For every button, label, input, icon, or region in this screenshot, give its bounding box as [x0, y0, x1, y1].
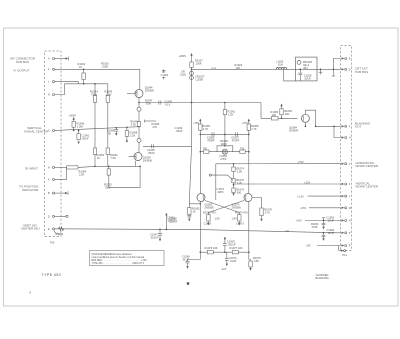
wire bus corner down to Q1084 base [261, 103, 297, 119]
svg-text:+1.2V: +1.2V [297, 194, 304, 198]
svg-text:F: F [349, 125, 351, 128]
resistor R1061 on x=224.9 from main bus [223, 102, 236, 146]
wire C1050 coupling from Q1054 region [143, 144, 192, 155]
svg-text:C1073: C1073 [236, 221, 244, 225]
svg-text:.001UF: .001UF [167, 218, 176, 222]
diode CR1026 [180, 69, 193, 76]
resistor R1077 on rail [230, 246, 243, 254]
svg-text:2.2K: 2.2K [130, 133, 136, 137]
resistor R1079 right with ground [249, 256, 261, 271]
svg-text:10K: 10K [285, 112, 290, 116]
wire w2 out to pin y=184 [233, 180, 341, 185]
svg-text:1.8V: 1.8V [215, 216, 221, 220]
svg-text:1.5K: 1.5K [228, 112, 234, 116]
wire Q1063 emitter down [200, 202, 202, 260]
resistor R1090 squiggle on E bus [59, 227, 64, 231]
transistor Q1054 [129, 142, 153, 162]
svg-text:TYPE 453: TYPE 453 [42, 273, 62, 277]
svg-text:P10: P10 [50, 242, 55, 245]
svg-text:-12V: -12V [221, 267, 227, 271]
connector P10 (left, dashed) [45, 51, 62, 245]
svg-text:+75V: +75V [298, 160, 304, 164]
svg-text:.02UF: .02UF [327, 219, 334, 223]
transistor Q1044 [127, 69, 154, 97]
wire emitter rail y=252.2 [200, 251, 249, 253]
svg-text:.05UF: .05UF [176, 129, 183, 133]
wire cross-coupling X left-to-right [205, 201, 239, 213]
wire pin B1 stub down to F bus [332, 59, 341, 77]
svg-text:2.7K: 2.7K [251, 127, 257, 131]
svg-text:D: D [349, 68, 351, 71]
diode CR1027 [190, 75, 205, 82]
pin E of P10 [48, 228, 59, 235]
svg-text:2N3906: 2N3906 [143, 159, 153, 163]
pin K of P10 jog up to H wire [48, 167, 67, 181]
svg-text:10K: 10K [236, 66, 241, 70]
resistor R1051 lower box on x=95 [93, 148, 104, 160]
wire cross-coupling X right-to-left [208, 201, 244, 213]
svg-text:+300V: +300V [179, 54, 187, 58]
resistor R1042 stub between F bus and L/N bus [78, 62, 86, 85]
svg-text:.01UF: .01UF [182, 257, 189, 261]
svg-text:L: L [48, 81, 50, 84]
svg-text:TYPE 453 . . . . . . . . . .: TYPE 453 . . . . . . . . . . . . . . . .… [92, 262, 145, 265]
svg-text:N: N [48, 94, 50, 97]
svg-text:1K: 1K [79, 65, 82, 69]
wire divider column x=233.5 [233, 163, 235, 193]
svg-text:M: M [349, 207, 351, 210]
resistor R1078 right outer [260, 203, 273, 221]
wire bypass loop under L1025 [284, 69, 296, 81]
capacitor C1046 stub below C bus with ground [107, 127, 119, 136]
svg-text:PCB BUS: PCB BUS [16, 60, 29, 64]
svg-text:PCB BUS: PCB BUS [355, 70, 368, 74]
pin P1 of P11 [342, 232, 351, 235]
wire loop above C1066 [217, 145, 233, 152]
svg-text:.001UF: .001UF [150, 236, 159, 240]
svg-text:L: L [349, 195, 351, 198]
diode CR1044 circle [137, 138, 141, 142]
pin H of P10 with resistor R1054 to divider [48, 166, 96, 177]
svg-text:H: H [48, 167, 50, 170]
pin L1 of P11 [342, 195, 351, 198]
svg-text:9.1V: 9.1V [165, 103, 171, 107]
svg-text:A: A [48, 58, 50, 61]
power +300V feed at x=191.5 [179, 53, 204, 69]
svg-text:100K: 100K [196, 61, 202, 65]
note box [90, 251, 165, 266]
pin R1 of P11 [342, 244, 351, 247]
capacitor C1065 on wire [207, 132, 216, 142]
svg-text:INDICATOR: INDICATOR [22, 188, 39, 192]
capacitor C1026 inside box [298, 69, 312, 81]
svg-text:J: J [349, 163, 351, 166]
node junction circle with stub [209, 174, 233, 194]
capacitor C1066 circled on mid rail [219, 149, 227, 161]
pin J1 of P11 [342, 163, 351, 166]
wire cross coupling top y=134.4 [200, 134, 250, 136]
power arrow left supply [193, 119, 211, 194]
capacitor C1092 to ground below E bus [322, 228, 335, 241]
pin N1 of P11 [342, 219, 351, 222]
wire w3 Q1073 output to pin [297, 194, 341, 198]
svg-text:2.7K: 2.7K [265, 210, 271, 214]
capacitor C1067 on wire [231, 132, 240, 142]
svg-text:C1024: C1024 [161, 73, 169, 77]
svg-text:N: N [349, 220, 351, 223]
svg-text:.05UF: .05UF [82, 137, 89, 141]
svg-text:10K: 10K [272, 113, 277, 117]
wire diode to R1043 [138, 111, 140, 121]
svg-text:470PF: 470PF [232, 138, 240, 142]
pin N of P10 [48, 94, 55, 97]
svg-text:750K: 750K [105, 185, 111, 189]
capacitor C1068 left with ground [182, 254, 200, 268]
svg-text:750K: 750K [91, 92, 97, 96]
svg-text:.001UF: .001UF [227, 242, 236, 246]
resistor small box left on mid rail [203, 147, 209, 154]
svg-text:-0.6V: -0.6V [300, 206, 306, 210]
svg-text:560: 560 [237, 191, 242, 195]
svg-text:1.8K: 1.8K [254, 259, 260, 263]
wire R1043 to CR1044 [138, 127, 140, 139]
pin A of P10 [48, 57, 69, 61]
wire N pin jog [55, 84, 65, 95]
svg-text:L2508: L2508 [196, 78, 204, 82]
svg-text:7.5K: 7.5K [111, 156, 117, 160]
resistor R1076 on rail [205, 246, 218, 254]
wire C bus from pin C to Q1054 chain [55, 127, 139, 131]
pin D of P10 open stub [48, 215, 68, 218]
svg-text:WORK CENTER: WORK CENTER [356, 185, 379, 189]
svg-text:2N3904: 2N3904 [289, 128, 299, 132]
node junction at x=320.5 on F bus [319, 69, 323, 75]
node junction F bus / +300V [191, 69, 193, 71]
resistor R1062 on emitter feed [167, 146, 201, 222]
pin F of P10 [48, 68, 55, 71]
svg-text:CENTER ADJ: CENTER ADJ [21, 227, 40, 231]
resistor R1048 below C bus with ground [125, 120, 138, 143]
svg-text:+12V: +12V [304, 180, 310, 184]
svg-text:750K: 750K [145, 102, 151, 106]
svg-text:P: P [349, 232, 351, 235]
svg-text:27PF: 27PF [220, 157, 227, 161]
svg-text:2.2K: 2.2K [237, 181, 243, 185]
svg-text:B: B [48, 192, 50, 195]
svg-text:2N3906: 2N3906 [205, 206, 215, 210]
wire L pin jog [55, 82, 79, 84]
pin L of P10 [48, 81, 55, 84]
wire Q1084 collector loop to pins [305, 110, 341, 137]
capacitor C1070 center with ground [221, 252, 237, 271]
svg-text:22PF: 22PF [218, 190, 225, 194]
power arrow right supply [242, 119, 259, 194]
inductor L1025 coil on F bus [276, 60, 287, 70]
svg-text:B: B [349, 58, 351, 61]
resistor box R1076S with ground [232, 188, 245, 196]
wire Q1054 emitter loop [95, 161, 141, 190]
power +300V feed to C bus [69, 114, 85, 132]
resistor R1082 on Q1084 base wire [271, 110, 279, 120]
wire w4 to pin [300, 206, 341, 210]
connector P11 (right, dashed) [341, 46, 352, 258]
power +12V feed R1083 [280, 104, 293, 120]
wire E bus y=229 [55, 229, 338, 233]
svg-text:1026: 1026 [180, 72, 186, 76]
svg-text:.02UF: .02UF [327, 231, 334, 235]
svg-text:OUT: OUT [355, 125, 362, 129]
svg-text:K: K [349, 183, 351, 186]
resistor R1041 below C bus with ground [77, 130, 90, 145]
resistor R1045 vertical with box [105, 84, 113, 167]
svg-text:SIGNAL CENTER: SIGNAL CENTER [24, 129, 49, 133]
pin C of P10 [48, 130, 55, 133]
svg-text:R: R [349, 245, 351, 248]
svg-text:+300V: +300V [69, 114, 77, 118]
wire Q1044 emitter down [138, 98, 140, 107]
svg-text:3.3K: 3.3K [131, 123, 137, 127]
svg-text:1.8M: 1.8M [77, 125, 83, 129]
wire horizontal out to pin (w1) y=163.8 [216, 160, 341, 164]
svg-text:.05UF: .05UF [148, 151, 155, 155]
svg-text:R1090: R1090 [56, 232, 64, 236]
svg-text:WORK CENTER: WORK CENTER [356, 164, 379, 168]
resistor box R1074 [232, 167, 245, 174]
svg-text:750: 750 [203, 147, 208, 151]
resistor small box right on mid rail [240, 147, 245, 154]
wire F bus y=69.3 [55, 68, 140, 70]
pin H1 of P11 [342, 136, 351, 139]
svg-text:470K: 470K [312, 225, 318, 229]
svg-text:1K: 1K [97, 156, 100, 160]
wire Q1073 emitter down [248, 202, 250, 260]
svg-text:1.5K: 1.5K [237, 170, 243, 174]
resistor box R1075 [232, 178, 245, 185]
wire +300V line continues down [191, 69, 193, 146]
capacitor on main bus x=160 [159, 100, 161, 104]
page mark 4 [187, 282, 189, 285]
svg-text:F: F [48, 68, 50, 71]
transistor Q1084 [289, 114, 309, 132]
svg-text:-1V: -1V [285, 229, 289, 233]
svg-text:C1063: C1063 [204, 221, 212, 225]
wire E bus jog up to pin [338, 232, 341, 234]
svg-text:R1077 10K: R1077 10K [230, 246, 243, 250]
svg-text:.1UH: .1UH [277, 63, 283, 67]
wire w7 to pin [306, 244, 341, 248]
svg-text:R1076 10K: R1076 10K [205, 246, 218, 250]
svg-text:-4.6V: -4.6V [296, 219, 302, 223]
capacitor C1069 above rail [223, 237, 236, 254]
wire mid rail y=151.7 [200, 151, 250, 153]
transistor Q1073 [232, 194, 253, 210]
wire inner box left edge [215, 164, 217, 200]
pin D1 of P11 [342, 68, 351, 71]
svg-text:2.5K: 2.5K [79, 172, 85, 176]
svg-text:R1074 470: R1074 470 [235, 211, 248, 215]
svg-text:6: 6 [30, 291, 32, 295]
svg-text:27K: 27K [153, 125, 158, 129]
wire w5 to pin [296, 219, 341, 223]
svg-text:'B' INPUT: 'B' INPUT [25, 166, 38, 170]
svg-text:2N3906: 2N3906 [232, 206, 242, 210]
svg-text:470PF: 470PF [207, 138, 215, 142]
wire Q1073 to R1078 [252, 198, 261, 204]
svg-text:1K: 1K [193, 210, 196, 214]
capacitor C1048 above E bus with arrow [165, 213, 178, 231]
pin F1 of P11 [342, 125, 351, 128]
svg-text:750: 750 [240, 147, 245, 151]
svg-text:.01UF: .01UF [229, 259, 236, 263]
wire L/N bus y=83.8 [65, 83, 108, 85]
capacitor C1047 below E bus [150, 229, 162, 242]
svg-text:2.7K: 2.7K [203, 127, 209, 131]
svg-text:1.2M: 1.2M [106, 92, 112, 96]
capacitor C1091 to ground below w5 [311, 216, 335, 230]
transistor Q1063 [197, 194, 214, 210]
svg-text:D: D [48, 215, 50, 218]
resistor R1072 base right [235, 211, 248, 226]
diode CR1045 circle [137, 107, 141, 111]
svg-text:P11: P11 [343, 254, 348, 257]
capacitor C1024 stub on F bus [161, 70, 169, 80]
svg-text:100K: 100K [102, 65, 108, 69]
svg-text:.05: .05 [107, 132, 111, 136]
svg-text:BLANKING: BLANKING [316, 276, 329, 280]
neon bulb DS1025 box [296, 57, 317, 81]
svg-text:1.8V: 1.8V [232, 216, 238, 220]
resistor R1043 box [137, 122, 140, 127]
wire main bus y=102.5 [139, 102, 261, 104]
svg-text:.02UF: .02UF [304, 76, 311, 80]
wire stub R1049 [145, 120, 157, 123]
pin M1 of P11 [342, 207, 351, 210]
svg-text:TP28: TP28 [211, 68, 217, 70]
resistor R1044 vertical with box [90, 83, 98, 166]
svg-text:K: K [48, 179, 50, 182]
resistor R1063 base left [203, 211, 216, 226]
svg-text:C: C [48, 130, 50, 133]
svg-text:E: E [48, 228, 50, 231]
pin B1 of P11 [342, 57, 351, 60]
pin K1 of P11 [342, 183, 351, 186]
svg-text:-12V: -12V [306, 244, 312, 248]
svg-text:'A' OUTPUT: 'A' OUTPUT [13, 69, 29, 73]
svg-text:90V: 90V [303, 66, 308, 70]
resistor R1052 lower box on x=108 [106, 148, 118, 160]
svg-text:2N3906: 2N3906 [145, 89, 155, 93]
svg-text:100K: 100K [221, 142, 227, 146]
svg-text:H: H [349, 137, 351, 140]
svg-text:R1063 470: R1063 470 [203, 211, 216, 215]
pin B of P10 [48, 191, 68, 195]
wire hook at last pin [339, 246, 346, 252]
